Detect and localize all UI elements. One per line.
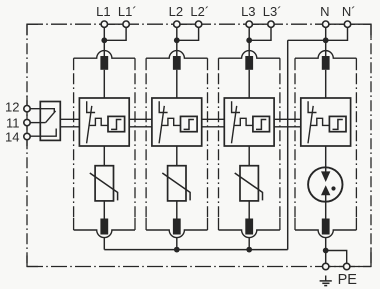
wire module plug to bottom rail L2: [176, 238, 178, 250]
wire varistor common bottom rail: [104, 249, 287, 251]
trigger box U1: [108, 116, 125, 131]
terminal L3: [246, 21, 252, 27]
disconnector F4 top (thermal): [322, 56, 330, 70]
control unit U1 box: [79, 98, 129, 146]
wire between terminals N and N´: [323, 23, 351, 25]
wire L1 junction to module plug: [103, 40, 105, 58]
svg-text:L2: L2: [169, 4, 183, 19]
enclosure corner top-right: [347, 24, 371, 38]
wire L3 junction to module plug: [248, 40, 250, 58]
wire N terminal to junction: [325, 24, 327, 40]
node junction L3: [246, 37, 252, 43]
remote signalling contact box K1: [40, 102, 60, 141]
control unit U2 box: [152, 98, 202, 146]
svg-text:L1: L1: [96, 4, 110, 19]
svg-text:N´: N´: [342, 4, 356, 19]
svg-text:14: 14: [5, 129, 19, 144]
protection module boundary L2 top edge with plug contact: [146, 51, 207, 59]
step waveform glyph U1: [111, 120, 121, 130]
enclosure corner bottom-right: [347, 249, 371, 267]
node junction N-PE: [323, 248, 329, 254]
node junction N: [323, 37, 329, 43]
terminal L1: [101, 21, 107, 27]
contact fixed lead U4: [308, 101, 316, 112]
spark gap electrode top triangle: [321, 171, 330, 182]
terminal L3´: [268, 21, 274, 27]
varistor RV2 diagonal: [162, 173, 190, 200]
control unit U4 box: [301, 98, 351, 146]
svg-text:N: N: [320, 4, 329, 19]
node junction L2: [174, 37, 180, 43]
spark gap trigger dot: [331, 186, 335, 190]
enclosure border solid near signal terminals: [26, 96, 28, 146]
monitoring bus lower wire segment 4: [274, 126, 301, 128]
control unit U3 box: [224, 98, 274, 146]
trigger link wire U3: [234, 118, 253, 125]
protection module boundary L1 right edge: [134, 58, 136, 70]
ground symbol stem: [325, 276, 327, 281]
trigger link wire U2: [161, 118, 180, 125]
contact lever U3: [232, 106, 237, 143]
contact lever U4: [308, 106, 313, 143]
disconnector F2 top (thermal): [173, 56, 181, 70]
contact fixed lead U3: [232, 101, 240, 112]
trigger link wire U4: [310, 118, 329, 125]
terminal L2: [174, 21, 180, 27]
wire terminal 14: [30, 129, 56, 137]
wire L3´ terminal to junction: [249, 24, 271, 40]
protection module boundary N right edge: [355, 58, 357, 70]
protection module boundary L1 left edge: [73, 58, 75, 70]
wire N´ terminal to junction: [326, 24, 348, 40]
ground symbol bar 3: [324, 285, 327, 287]
wire between PE terminals: [326, 266, 347, 268]
enclosure corner top-left: [27, 24, 38, 35]
protection module boundary L2 right edge: [207, 58, 209, 70]
wire between terminals L1 and L1´: [101, 23, 129, 25]
terminal earth: [323, 263, 329, 269]
svg-text:PE: PE: [338, 272, 358, 288]
svg-text:L3´: L3´: [263, 4, 282, 19]
varistor RV2 body: [168, 166, 186, 201]
step waveform glyph U4: [333, 120, 343, 130]
wire N module plug to PE junction: [325, 238, 327, 264]
wire varistor to bottom disconnector L3: [248, 201, 250, 219]
terminal 11: [24, 119, 30, 125]
wire varistor to bottom disconnector L2: [176, 201, 178, 219]
enclosure corner bottom-left: [27, 256, 38, 267]
wire between terminals L3 and L3´: [246, 23, 274, 25]
contact lever U1: [87, 106, 92, 143]
wire disconnector to control box N: [325, 70, 327, 98]
contact fixed lead U2: [159, 101, 167, 112]
protection module boundary L1 bottom edge with plug contact: [74, 230, 135, 238]
svg-text:11: 11: [6, 115, 20, 130]
svg-text:12: 12: [5, 99, 19, 114]
protection module boundary N left edge: [294, 58, 296, 70]
monitoring bus upper wire segment 3: [202, 118, 225, 120]
svg-text:L2´: L2´: [190, 4, 209, 19]
terminal 14: [24, 133, 30, 139]
wire L1´ terminal to junction: [104, 24, 126, 40]
wire N junction to riser: [288, 39, 324, 41]
wire terminal 11: [30, 122, 45, 124]
varistor RV3 body: [240, 166, 258, 201]
protection module boundary L3 right edge: [279, 58, 281, 70]
wire between terminals L2 and L2´: [174, 23, 202, 25]
terminal L1´: [123, 21, 129, 27]
wire L1 terminal to junction: [103, 24, 105, 40]
monitoring bus upper wire segment 1: [60, 118, 79, 120]
terminal N´: [344, 21, 350, 27]
disconnector bottom N: [322, 219, 330, 235]
changeover contact lever K1: [46, 111, 56, 123]
disconnector F3 top (thermal): [245, 56, 253, 70]
svg-text:L3: L3: [241, 4, 255, 19]
enclosure border top: [27, 23, 371, 25]
wire control box to varistor L3: [248, 146, 250, 166]
node junction L3 bottom rail: [246, 247, 252, 253]
monitoring bus lower wire segment 2: [129, 126, 152, 128]
wire terminal 12: [30, 109, 54, 113]
wire control box to spark gap N: [325, 146, 327, 172]
protection module boundary L3 top edge with plug contact: [219, 51, 280, 59]
wire module plug to bottom rail L1: [103, 238, 105, 250]
wire disconnector to control box L3: [248, 70, 250, 98]
varistor RV3 diagonal: [235, 173, 263, 200]
wire N junction to module plug: [325, 40, 327, 58]
monitoring bus upper wire segment 4: [274, 118, 301, 120]
step waveform glyph U3: [256, 120, 266, 130]
disconnector bottom L1: [100, 219, 108, 235]
spark gap GDT N-PE circle: [308, 167, 342, 201]
monitoring bus lower wire segment 1: [60, 126, 79, 128]
trigger box U3: [253, 116, 270, 131]
protection module boundary L1 top edge with plug contact: [74, 51, 135, 59]
wire disconnector to control box L2: [176, 70, 178, 98]
monitoring bus lower wire segment 3: [202, 126, 225, 128]
wire module plug to bottom rail L3: [248, 238, 250, 250]
protection module boundary L2 left edge: [145, 58, 147, 70]
disconnector bottom L3: [245, 219, 253, 235]
wire control box to varistor L1: [103, 146, 105, 166]
wire L2 junction to module plug: [176, 40, 178, 58]
trigger box U4: [329, 116, 346, 131]
wire disconnector to control box L1: [103, 70, 105, 98]
trigger box U2: [181, 116, 198, 131]
disconnector F1 top (thermal): [100, 56, 108, 70]
wire varistor to bottom disconnector L1: [103, 201, 105, 219]
svg-text:L1´: L1´: [118, 4, 137, 19]
enclosure border left: [26, 24, 28, 266]
node junction L1: [101, 37, 107, 43]
trigger link wire U1: [89, 118, 108, 125]
terminal 12: [24, 106, 30, 112]
contact lever U2: [159, 106, 164, 143]
enclosure border bottom: [27, 266, 371, 268]
contact fixed lead U1: [87, 101, 95, 112]
protection module boundary N top edge with plug contact: [295, 51, 356, 59]
protection module boundary L2 bottom edge with plug contact: [146, 230, 207, 238]
node junction L2 bottom rail: [174, 247, 180, 253]
enclosure border right: [370, 24, 372, 266]
wire N riser vertical: [287, 40, 289, 249]
monitoring bus upper wire segment 2: [129, 118, 152, 120]
terminal N: [323, 21, 329, 27]
protection module boundary L3 left edge: [218, 58, 220, 70]
ground symbol bar 2: [322, 282, 329, 284]
wire junction to PE terminal right: [326, 251, 347, 264]
disconnector bottom L2: [173, 219, 181, 235]
varistor RV1 diagonal: [90, 173, 118, 200]
spark gap electrode bottom triangle: [321, 185, 330, 195]
protection module boundary L3 bottom edge with plug contact: [219, 230, 280, 238]
step waveform glyph U2: [184, 120, 194, 130]
terminal L2´: [195, 21, 201, 27]
wire L2 terminal to junction: [176, 24, 178, 40]
varistor RV1 body: [95, 166, 113, 201]
wire spark gap to bottom disconnector N: [325, 195, 327, 219]
terminal PE: [344, 263, 350, 269]
protection module boundary N bottom edge with plug contact: [295, 230, 356, 238]
wire L2´ terminal to junction: [177, 24, 199, 40]
ground symbol bar 1: [320, 280, 332, 282]
wire L3 terminal to junction: [248, 24, 250, 40]
wire control box to varistor L2: [176, 146, 178, 166]
